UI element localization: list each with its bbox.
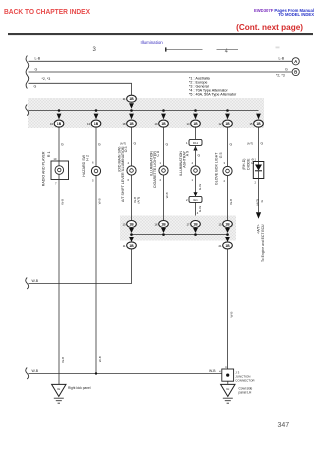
svg-text:1: 1 bbox=[186, 141, 188, 145]
faint smudge bbox=[276, 47, 280, 49]
svg-text:IE1: IE1 bbox=[193, 198, 198, 202]
svg-text:IH: IH bbox=[226, 387, 229, 391]
ashtray connector box bottom bbox=[186, 196, 202, 202]
bulb radio bbox=[55, 161, 64, 180]
wire to cig lighter bbox=[163, 127, 165, 166]
svg-text:O 3: O 3 bbox=[124, 147, 128, 153]
arrow J/B2 entry 3 bbox=[193, 228, 198, 233]
junction dot bus1 x59 bbox=[58, 109, 61, 112]
top separator bar bbox=[8, 33, 313, 35]
svg-text:W-B: W-B bbox=[32, 279, 39, 283]
svg-text:13: 13 bbox=[87, 122, 90, 126]
svg-text:1B: 1B bbox=[129, 122, 134, 126]
wire radio ground bbox=[58, 180, 60, 385]
svg-text:1: 1 bbox=[191, 178, 193, 182]
junction connector J3 box bbox=[219, 365, 255, 383]
wire G middle bbox=[29, 71, 293, 73]
svg-text:(A/T): (A/T) bbox=[247, 142, 253, 146]
svg-text:2: 2 bbox=[254, 180, 256, 184]
ruler line left bbox=[167, 48, 203, 51]
svg-text:G: G bbox=[261, 142, 264, 146]
svg-text:G-W: G-W bbox=[198, 206, 202, 212]
arrow J/B1 exit 7 bbox=[256, 114, 261, 120]
junction dot bus1 x96 bbox=[95, 109, 98, 112]
svg-text:GLOVE BOX LIGHT: GLOVE BOX LIGHT bbox=[215, 152, 219, 185]
bulb glove box light bbox=[223, 166, 232, 175]
connector 1K oval bbox=[219, 120, 233, 127]
svg-text:7: 7 bbox=[55, 181, 57, 185]
svg-text:L-B: L-B bbox=[35, 57, 41, 61]
wire W-B exit left bbox=[29, 249, 132, 284]
svg-text:panel LH: panel LH bbox=[239, 391, 252, 395]
bulb ashtray illum bbox=[191, 166, 200, 175]
svg-text:18: 18 bbox=[123, 122, 126, 126]
connector 1G oval bbox=[87, 120, 101, 127]
svg-text:(A/T): (A/T) bbox=[255, 199, 259, 206]
legend variant notes bbox=[189, 77, 237, 97]
connector 2D oval bbox=[219, 221, 233, 228]
connector 2B oval bbox=[155, 221, 169, 228]
J/B2 internal bus bbox=[132, 234, 228, 236]
bulb cigarette lighter illum bbox=[159, 166, 168, 175]
connector circle B bbox=[292, 68, 299, 75]
svg-text:IE: IE bbox=[57, 387, 60, 391]
svg-text:W-B: W-B bbox=[165, 192, 169, 198]
arrow J/B2 entry 2 bbox=[161, 228, 166, 233]
svg-text:Illumination: Illumination bbox=[141, 40, 164, 45]
svg-text:1B: 1B bbox=[225, 244, 230, 248]
arrow J/B1 exit 2 bbox=[94, 114, 99, 120]
arrow J/B2 entry 4 bbox=[225, 228, 230, 233]
svg-text:(RH-D): (RH-D) bbox=[242, 159, 246, 170]
wire to ashtray bbox=[195, 127, 197, 139]
arrow into bus bbox=[129, 103, 134, 109]
svg-text:L-B: L-B bbox=[279, 57, 285, 61]
svg-text:21: 21 bbox=[219, 244, 222, 248]
diode D9 box bbox=[253, 162, 263, 179]
svg-text:1B: 1B bbox=[57, 122, 62, 126]
connector 2F oval bbox=[219, 242, 233, 249]
svg-text:(A/T): (A/T) bbox=[120, 142, 126, 146]
wire to glove box bbox=[227, 127, 229, 166]
svg-text:G: G bbox=[134, 142, 137, 146]
squiggle W-B left bbox=[26, 278, 29, 290]
svg-text:16: 16 bbox=[155, 223, 158, 227]
svg-text:Right kick panel: Right kick panel bbox=[68, 386, 91, 390]
svg-text:1B: 1B bbox=[225, 223, 230, 227]
junction dot bus1 x227 bbox=[226, 109, 229, 112]
svg-text:4: 4 bbox=[127, 161, 129, 165]
connector 1I oval bbox=[155, 120, 169, 127]
svg-text:W-B: W-B bbox=[229, 199, 233, 205]
svg-text:DIODE: DIODE bbox=[247, 158, 251, 170]
connector 2E oval bbox=[123, 242, 137, 249]
wire cig lighter to J/B2 bbox=[163, 175, 165, 220]
junction dot hazard bbox=[95, 372, 97, 374]
svg-text:1B: 1B bbox=[94, 122, 99, 126]
svg-text:G: G bbox=[230, 143, 233, 147]
svg-text:1B: 1B bbox=[256, 122, 261, 126]
wire shift illum to J/B2 bbox=[131, 175, 133, 220]
diode symbol bbox=[255, 162, 262, 179]
wire ashtray lower bbox=[195, 175, 197, 196]
ruler line right bbox=[217, 48, 239, 51]
connector 1E entry oval bbox=[123, 95, 137, 102]
svg-text:1B: 1B bbox=[225, 122, 230, 126]
svg-text:B: B bbox=[294, 70, 297, 75]
svg-text:W-B: W-B bbox=[209, 369, 216, 373]
arrow J/B1 exit 6 bbox=[225, 114, 230, 120]
svg-text:10: 10 bbox=[123, 223, 126, 227]
svg-text:H 2: H 2 bbox=[86, 155, 90, 161]
wire 3 to panel bbox=[29, 83, 132, 95]
svg-text:2: 2 bbox=[223, 179, 225, 183]
arrow up into D11 bbox=[193, 146, 197, 151]
squiggle ground bus bbox=[26, 368, 29, 380]
svg-text:15: 15 bbox=[219, 223, 222, 227]
svg-text:1B: 1B bbox=[161, 223, 166, 227]
svg-text:10: 10 bbox=[53, 157, 57, 161]
ground bus W-B bbox=[29, 373, 222, 375]
wire to radio bbox=[58, 127, 60, 161]
arrow down into IE1 bbox=[193, 192, 197, 196]
wire glove box to J/B2 bbox=[227, 176, 229, 221]
wire L-B top bbox=[29, 60, 293, 62]
svg-text:11: 11 bbox=[123, 244, 126, 248]
ground left kick panel bbox=[52, 384, 66, 403]
wire ashtray upper bbox=[195, 146, 197, 166]
svg-text:2: 2 bbox=[186, 198, 188, 202]
svg-text:3: 3 bbox=[93, 47, 97, 53]
ashtray connector box top bbox=[186, 139, 202, 145]
svg-text:1B: 1B bbox=[129, 244, 134, 248]
svg-text:1B: 1B bbox=[193, 122, 198, 126]
svg-text:TO MODEL INDEX: TO MODEL INDEX bbox=[278, 12, 314, 17]
svg-text:W-B: W-B bbox=[61, 199, 65, 205]
svg-text:6: 6 bbox=[92, 161, 94, 165]
svg-text:17: 17 bbox=[187, 223, 190, 227]
svg-text:G: G bbox=[260, 199, 264, 202]
svg-text:BACK TO CHAPTER INDEX: BACK TO CHAPTER INDEX bbox=[4, 7, 90, 16]
svg-text:W-B: W-B bbox=[229, 312, 233, 318]
svg-text:G: G bbox=[34, 85, 37, 89]
svg-text:G: G bbox=[198, 154, 201, 158]
wire to shift lever illum bbox=[131, 127, 133, 166]
wire ashtray to J/B 2 bbox=[195, 202, 197, 220]
junction block 1 hatch band bbox=[28, 98, 264, 128]
svg-text:4: 4 bbox=[219, 369, 221, 373]
svg-text:A/T SHIFT LEVER ILLUMINATION: A/T SHIFT LEVER ILLUMINATION bbox=[121, 146, 125, 202]
svg-text:1B: 1B bbox=[129, 223, 134, 227]
arrow J/B2 entry 1 bbox=[129, 228, 134, 233]
svg-text:<A/T>: <A/T> bbox=[256, 224, 260, 233]
junction dot bus2 x227 bbox=[226, 233, 229, 236]
wire to diode bbox=[258, 127, 260, 161]
svg-text:4: 4 bbox=[191, 161, 193, 165]
svg-text:G: G bbox=[285, 67, 288, 71]
svg-text:1B: 1B bbox=[129, 97, 134, 101]
wire glove to junction connector bbox=[227, 249, 229, 369]
arrow J/B2 exit right bbox=[225, 237, 230, 242]
arrow J/B1 exit 1 bbox=[57, 114, 62, 120]
ground right cowl side bbox=[221, 381, 235, 403]
svg-text:6: 6 bbox=[127, 178, 129, 182]
svg-text:W-B: W-B bbox=[61, 357, 65, 363]
wire below diode bbox=[258, 179, 260, 213]
svg-text:W-B: W-B bbox=[98, 356, 102, 362]
bulb shift lever illum bbox=[127, 166, 136, 175]
svg-text:*2, *3: *2, *3 bbox=[276, 74, 285, 78]
connector 1L oval bbox=[250, 120, 264, 127]
svg-text:(Cont. next page): (Cont. next page) bbox=[236, 23, 303, 32]
svg-text:To Engine and ECT ECU: To Engine and ECT ECU bbox=[261, 224, 265, 262]
svg-text:R 1: R 1 bbox=[47, 152, 51, 158]
left squiggle to J/B bus bbox=[26, 105, 29, 116]
svg-text:10: 10 bbox=[155, 122, 158, 126]
svg-text:1B: 1B bbox=[193, 223, 198, 227]
svg-text:1: 1 bbox=[159, 161, 161, 165]
J/B internal bus bbox=[29, 110, 259, 112]
svg-text:A 9: A 9 bbox=[186, 151, 190, 156]
wire to hazard sw bbox=[95, 127, 97, 166]
svg-text:3: 3 bbox=[223, 161, 225, 165]
junction block 2 hatch band bbox=[120, 216, 236, 241]
arrow J/B1 exit 4 bbox=[161, 114, 166, 120]
arrow J/B1 exit 3 bbox=[129, 114, 134, 120]
svg-text:C 8: C 8 bbox=[156, 151, 160, 157]
connector 2C oval bbox=[187, 221, 201, 228]
svg-text:D11: D11 bbox=[193, 141, 199, 145]
junction dot bus2 x195 bbox=[194, 233, 197, 236]
junction dot bus2 x131 bbox=[130, 233, 133, 236]
arrow to ECT ECU bbox=[256, 212, 261, 218]
connector 1H oval bbox=[123, 120, 137, 127]
connector 1J oval bbox=[187, 120, 201, 127]
svg-text:1B: 1B bbox=[161, 122, 166, 126]
junction dot bus1 x195 bbox=[194, 109, 197, 112]
junction dot bus1 x163 bbox=[162, 109, 165, 112]
junction dot bus2 x163 bbox=[162, 233, 165, 236]
svg-text:16: 16 bbox=[50, 122, 53, 126]
svg-text:W-B: W-B bbox=[98, 198, 102, 204]
svg-text:G: G bbox=[61, 143, 64, 147]
svg-text:2: 2 bbox=[159, 178, 161, 182]
svg-text:(A/T): (A/T) bbox=[136, 197, 140, 204]
svg-text:D 9: D 9 bbox=[251, 159, 255, 165]
svg-text:W-B: W-B bbox=[32, 369, 39, 373]
junction dot bus1 x131 bbox=[130, 109, 133, 112]
radio R1 box bbox=[51, 161, 69, 180]
svg-text:CONNECTOR: CONNECTOR bbox=[235, 379, 255, 383]
svg-text:14: 14 bbox=[187, 122, 190, 126]
ruler tick bbox=[165, 47, 167, 51]
svg-text:*2, *3: *2, *3 bbox=[42, 77, 51, 81]
svg-text:G-W: G-W bbox=[198, 184, 202, 190]
svg-text:RADIO AND PLAYER: RADIO AND PLAYER bbox=[42, 151, 46, 186]
connector 1F oval bbox=[50, 120, 64, 127]
svg-text:G: G bbox=[35, 67, 38, 71]
arrow J/B2 exit left bbox=[129, 237, 134, 242]
left continuation squiggle wires 1-3 bbox=[26, 56, 29, 89]
bulb hazard sw bbox=[91, 166, 100, 175]
svg-text:G: G bbox=[166, 143, 169, 147]
svg-text:347: 347 bbox=[278, 422, 290, 429]
svg-text:4: 4 bbox=[225, 365, 227, 369]
wire hazard ground bbox=[95, 176, 97, 374]
svg-text:12: 12 bbox=[219, 122, 222, 126]
connector 2A oval bbox=[123, 221, 137, 228]
svg-text:G: G bbox=[98, 143, 101, 147]
arrow J/B1 exit 5 bbox=[193, 114, 198, 120]
svg-text:5: 5 bbox=[92, 179, 94, 183]
svg-text:*5 : 40A, 50A Type Alternator: *5 : 40A, 50A Type Alternator bbox=[189, 93, 237, 97]
svg-text:G 5: G 5 bbox=[219, 153, 223, 159]
svg-text:15: 15 bbox=[250, 122, 253, 126]
connector circle A bbox=[292, 58, 299, 65]
